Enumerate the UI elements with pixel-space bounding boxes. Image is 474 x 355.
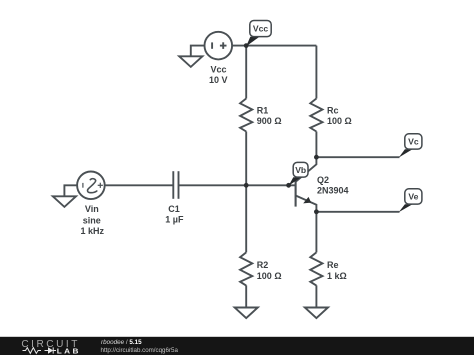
svg-text:http://circuitlab.com/cqg6r5a: http://circuitlab.com/cqg6r5a: [101, 347, 179, 354]
svg-text:Vcc: Vcc: [210, 65, 226, 75]
svg-text:Vin: Vin: [85, 204, 99, 214]
svg-text:100 Ω: 100 Ω: [327, 116, 352, 126]
svg-text:Vcc: Vcc: [253, 24, 269, 34]
svg-text:10 V: 10 V: [209, 75, 228, 85]
svg-text:Vc: Vc: [408, 137, 419, 147]
svg-text:2N3904: 2N3904: [317, 186, 349, 196]
svg-text:900 Ω: 900 Ω: [257, 116, 282, 126]
svg-text:1 µF: 1 µF: [165, 215, 184, 225]
svg-text:1 kΩ: 1 kΩ: [327, 271, 347, 281]
svg-text:Re: Re: [327, 260, 339, 270]
svg-text:Rc: Rc: [327, 106, 339, 116]
svg-text:1 kHz: 1 kHz: [80, 226, 104, 236]
svg-text:Ve: Ve: [408, 192, 418, 202]
svg-text:R2: R2: [257, 260, 269, 270]
svg-text:100 Ω: 100 Ω: [257, 271, 282, 281]
svg-text:Q2: Q2: [317, 175, 329, 185]
svg-text:LAB: LAB: [57, 349, 81, 355]
svg-text:R1: R1: [257, 106, 269, 116]
svg-text:sine: sine: [83, 216, 101, 226]
svg-text:C1: C1: [168, 204, 180, 214]
svg-text:rboodee / 5.15: rboodee / 5.15: [101, 339, 142, 346]
svg-text:Vb: Vb: [295, 165, 306, 175]
